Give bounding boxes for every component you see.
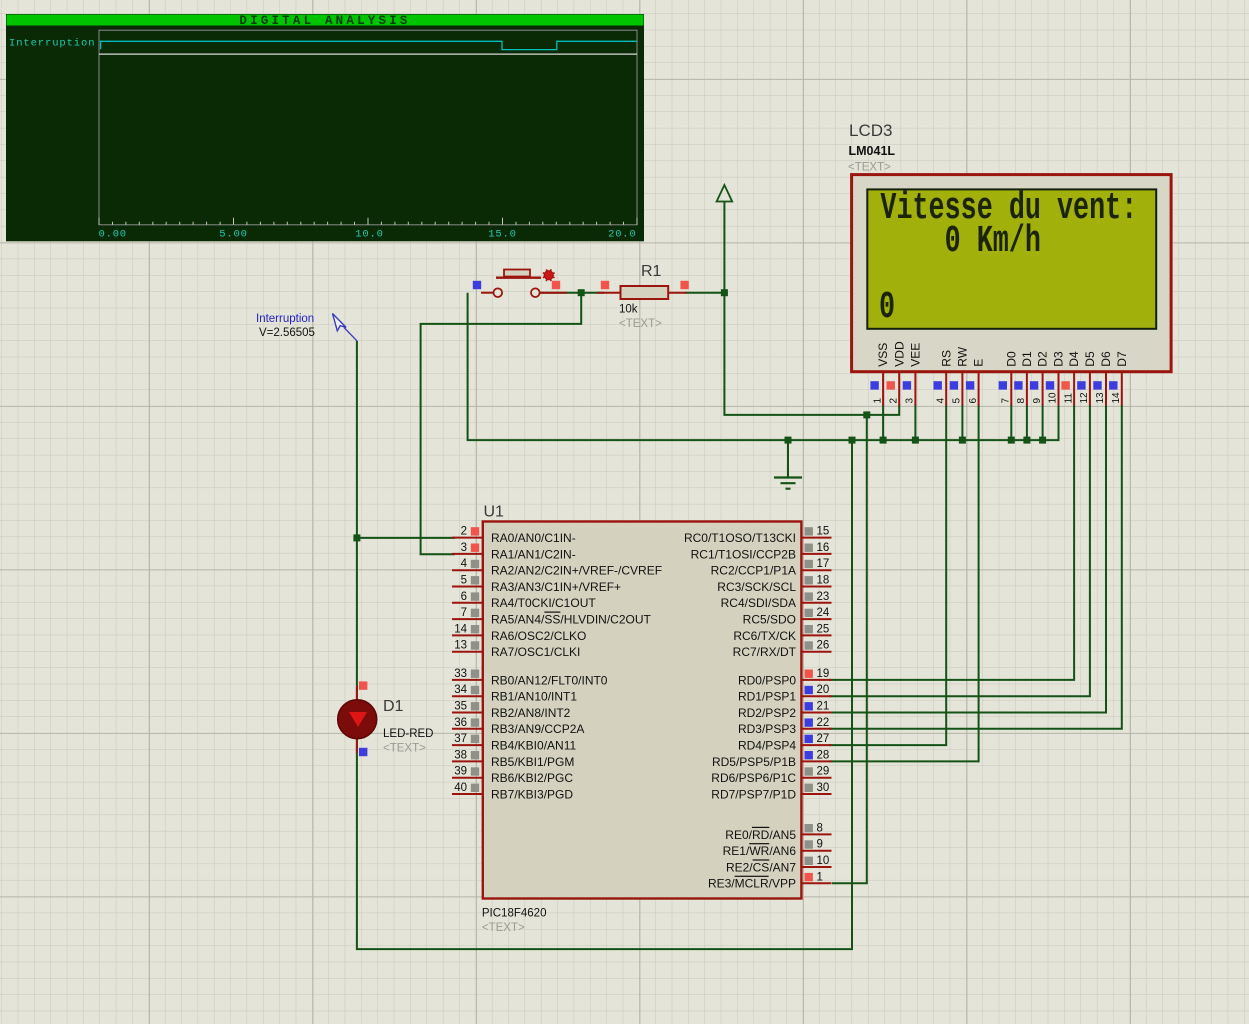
svg-text:3: 3 — [461, 542, 467, 554]
microcontroller U1 PIC18F4620 body — [483, 522, 802, 899]
svg-text:RE0/RD/AN5: RE0/RD/AN5 — [725, 828, 796, 842]
svg-text:RW: RW — [956, 346, 970, 366]
svg-text:VSS: VSS — [876, 343, 890, 367]
svg-text:10: 10 — [1048, 392, 1059, 404]
svg-text:RS: RS — [939, 350, 953, 367]
U1 pin 9 (RE1/WR/AN6) — [723, 839, 832, 858]
svg-text:19: 19 — [817, 668, 830, 680]
wire junction dots — [353, 289, 1046, 541]
svg-text:D4: D4 — [1067, 351, 1081, 367]
svg-text:Interruption: Interruption — [9, 38, 95, 50]
wire LCD RS to PIC RD4 — [829, 405, 946, 746]
svg-text:RD1/PSP1: RD1/PSP1 — [738, 690, 796, 704]
LCD3 pin 10 (D3) — [1046, 351, 1066, 405]
digital analysis window — [6, 14, 644, 242]
D1 terminal state squares — [359, 681, 367, 756]
svg-text:0: 0 — [879, 286, 895, 329]
svg-text:11: 11 — [1063, 393, 1074, 404]
LCD3 pin 12 (D5) — [1077, 351, 1097, 405]
svg-text:16: 16 — [817, 542, 830, 554]
svg-text:14: 14 — [1111, 392, 1122, 404]
svg-text:VEE: VEE — [909, 343, 923, 367]
wire LCD D7 to PIC RD3 — [829, 405, 1122, 729]
svg-text:RC5/SDO: RC5/SDO — [743, 613, 796, 627]
svg-text:LM041L: LM041L — [849, 144, 896, 158]
U1 pin 14 (RA6/OSC2/CLKO) — [452, 623, 586, 642]
svg-text:D0: D0 — [1004, 351, 1018, 367]
svg-text:24: 24 — [817, 607, 830, 619]
push button — [481, 270, 567, 298]
U1 pin 7 (RA5/AN4/SS/HLVDIN/C2OUT) — [452, 607, 652, 626]
svg-text:D3: D3 — [1052, 351, 1066, 367]
wire RA0 to probe net — [357, 537, 455, 539]
svg-text:15.0: 15.0 — [488, 229, 516, 241]
svg-text:<TEXT>: <TEXT> — [848, 162, 891, 174]
U1 pin 40 (RB7/KBI3/PGD) — [452, 782, 573, 801]
wire button left to ground bus — [468, 293, 1059, 440]
svg-text:RA5/AN4/SS/HLVDIN/C2OUT: RA5/AN4/SS/HLVDIN/C2OUT — [491, 613, 652, 627]
LCD3 pin 5 (RW) — [950, 346, 970, 405]
U1 pin 20 (RD1/PSP1) — [738, 684, 832, 703]
U1 pin 17 (RC2/CCP1/P1A) — [711, 558, 832, 577]
power symbol — [717, 185, 733, 202]
U1 pin 29 (RD6/PSP6/P1C) — [711, 766, 831, 785]
svg-text:Interruption: Interruption — [256, 313, 314, 325]
svg-text:10: 10 — [817, 855, 830, 867]
svg-text:R1: R1 — [641, 263, 662, 280]
wire LCD VSS to ground — [882, 405, 884, 441]
svg-text:RB1/AN10/INT1: RB1/AN10/INT1 — [491, 690, 577, 704]
svg-text:5: 5 — [461, 575, 467, 587]
svg-text:RB2/AN8/INT2: RB2/AN8/INT2 — [491, 706, 571, 720]
svg-text:RC6/TX/CK: RC6/TX/CK — [733, 629, 796, 643]
svg-text:PIC18F4620: PIC18F4620 — [482, 908, 547, 920]
LCD3 pin 6 (E) — [966, 359, 986, 406]
svg-text:LED-RED: LED-RED — [383, 728, 433, 740]
U1 pin 34 (RB1/AN10/INT1) — [452, 684, 577, 703]
svg-text:RD4/PSP4: RD4/PSP4 — [738, 739, 796, 753]
svg-text:RA2/AN2/C2IN+/VREF-/CVREF: RA2/AN2/C2IN+/VREF-/CVREF — [491, 564, 662, 578]
svg-text:RC3/SCK/SCL: RC3/SCK/SCL — [717, 580, 796, 594]
LCD3 pin 9 (D2) — [1030, 351, 1050, 405]
svg-text:6: 6 — [968, 398, 979, 404]
svg-text:RC4/SDI/SDA: RC4/SDI/SDA — [721, 596, 796, 610]
LCD3 pin 1 (VSS) — [870, 343, 890, 406]
svg-text:5: 5 — [952, 398, 963, 404]
svg-text:22: 22 — [817, 717, 830, 729]
wire LCD VEE to ground — [914, 405, 916, 441]
svg-text:D6: D6 — [1099, 351, 1113, 367]
svg-text:30: 30 — [817, 782, 830, 794]
svg-text:4: 4 — [461, 558, 468, 570]
svg-text:17: 17 — [817, 558, 830, 570]
channel separator — [99, 53, 637, 55]
svg-text:RB0/AN12/FLT0/INT0: RB0/AN12/FLT0/INT0 — [491, 673, 608, 687]
svg-text:<TEXT>: <TEXT> — [383, 743, 426, 755]
svg-text:V=2.56505: V=2.56505 — [259, 327, 315, 339]
U1 pin 3 (RA1/AN1/C2IN-) — [452, 542, 576, 561]
ground symbol — [774, 478, 802, 489]
wire LCD D5 to PIC RD1 — [829, 405, 1090, 697]
svg-text:38: 38 — [454, 749, 467, 761]
svg-text:7: 7 — [1001, 398, 1012, 404]
svg-text:RD3/PSP3: RD3/PSP3 — [738, 722, 796, 736]
svg-text:RE1/WR/AN6: RE1/WR/AN6 — [723, 844, 797, 858]
U1 pin 26 (RC7/RX/DT) — [733, 640, 832, 659]
wire LCD RW to ground — [961, 405, 963, 441]
U1 pin 23 (RC4/SDI/SDA) — [721, 591, 832, 610]
U1 pin 30 (RD7/PSP7/P1D) — [711, 782, 831, 801]
wire LCD D6 to PIC RD2 — [829, 405, 1106, 713]
svg-text:D1: D1 — [1020, 351, 1034, 367]
svg-text:D2: D2 — [1036, 351, 1050, 367]
LCD3 pin 11 (D4) — [1061, 351, 1081, 405]
svg-text:18: 18 — [817, 575, 830, 587]
svg-text:RC2/CCP1/P1A: RC2/CCP1/P1A — [711, 564, 796, 578]
trace Interruption — [101, 41, 637, 49]
svg-text:20.0: 20.0 — [608, 229, 636, 241]
svg-text:RD0/PSP0: RD0/PSP0 — [738, 673, 796, 687]
svg-text:40: 40 — [454, 782, 467, 794]
svg-text:10.0: 10.0 — [355, 229, 383, 241]
svg-text:10k: 10k — [619, 304, 638, 316]
time axis ticks — [99, 218, 637, 225]
wire LCD D2 to ground — [1042, 405, 1044, 441]
svg-text:<TEXT>: <TEXT> — [619, 318, 662, 330]
button actuate marker — [543, 269, 555, 281]
svg-text:20: 20 — [817, 684, 830, 696]
LCD3 pin 14 (D7) — [1109, 351, 1129, 405]
svg-text:<TEXT>: <TEXT> — [482, 922, 525, 934]
wire VDD to MCLR — [832, 415, 867, 883]
button terminal state squares — [473, 281, 560, 289]
svg-text:12: 12 — [1079, 392, 1090, 404]
U1 pin 33 (RB0/AN12/FLT0/INT0) — [452, 668, 608, 687]
svg-text:15: 15 — [817, 526, 830, 538]
svg-text:9: 9 — [817, 839, 823, 851]
svg-text:RA4/T0CKI/C1OUT: RA4/T0CKI/C1OUT — [491, 596, 596, 610]
svg-text:D1: D1 — [383, 698, 404, 715]
svg-text:33: 33 — [454, 668, 467, 680]
U1 pin 2 (RA0/AN0/C1IN-) — [452, 526, 576, 545]
svg-text:RB4/KBI0/AN11: RB4/KBI0/AN11 — [491, 739, 576, 753]
svg-text:37: 37 — [454, 733, 467, 745]
svg-text:1: 1 — [872, 398, 883, 404]
U1 pin 39 (RB6/KBI2/PGC) — [452, 766, 573, 785]
probe cursor arrow — [333, 314, 347, 331]
svg-text:RD6/PSP6/P1C: RD6/PSP6/P1C — [711, 771, 796, 785]
U1 pin 38 (RB5/KBI1/PGM) — [452, 749, 574, 768]
LCD LCD3 LM041L body — [852, 175, 1172, 372]
svg-text:RA6/OSC2/CLKO: RA6/OSC2/CLKO — [491, 629, 586, 643]
svg-text:RB3/AN9/CCP2A: RB3/AN9/CCP2A — [491, 722, 584, 736]
LCD screen — [867, 189, 1156, 328]
svg-text:14: 14 — [454, 623, 467, 635]
U1 pin 24 (RC5/SDO) — [743, 607, 832, 626]
LCD3 pin 4 (RS) — [934, 350, 954, 405]
svg-text:8: 8 — [1016, 398, 1027, 404]
U1 pin 35 (RB2/AN8/INT2) — [452, 701, 571, 720]
svg-text:RD2/PSP2: RD2/PSP2 — [738, 706, 796, 720]
svg-text:RA3/AN3/C1IN+/VREF+: RA3/AN3/C1IN+/VREF+ — [491, 580, 621, 594]
svg-text:8: 8 — [817, 822, 823, 834]
svg-text:21: 21 — [817, 701, 830, 713]
wire RA1 to button junction — [421, 293, 582, 555]
svg-text:4: 4 — [935, 398, 946, 404]
LCD3 pin 3 (VEE) — [903, 343, 923, 406]
wire power to LCD VDD — [724, 293, 899, 415]
wire probe to LED to ground return — [357, 341, 852, 949]
svg-text:RB7/KBI3/PGD: RB7/KBI3/PGD — [491, 787, 573, 801]
svg-text:RD7/PSP7/P1D: RD7/PSP7/P1D — [711, 787, 796, 801]
svg-text:E: E — [972, 359, 986, 367]
svg-text:2: 2 — [888, 398, 899, 404]
svg-text:13: 13 — [454, 640, 467, 652]
svg-text:29: 29 — [817, 766, 830, 778]
U1 pin 8 (RE0/RD/AN5) — [725, 822, 831, 841]
svg-text:RE3/MCLR/VPP: RE3/MCLR/VPP — [708, 877, 796, 891]
svg-text:34: 34 — [454, 684, 467, 696]
svg-text:28: 28 — [817, 749, 830, 761]
svg-text:RB6/KBI2/PGC: RB6/KBI2/PGC — [491, 771, 573, 785]
wire LCD D0 to ground — [1010, 405, 1012, 441]
U1 pin 18 (RC3/SCK/SCL) — [717, 575, 831, 594]
U1 pin 25 (RC6/TX/CK) — [733, 623, 831, 642]
ground symbol stem — [787, 440, 789, 477]
svg-text:1: 1 — [817, 871, 823, 883]
plot area frame — [99, 30, 637, 225]
U1 pin 5 (RA3/AN3/C1IN+/VREF+) — [452, 575, 621, 594]
wire button right to R1 — [535, 292, 604, 294]
wire R1 right to power — [685, 202, 724, 293]
svg-text:13: 13 — [1095, 392, 1106, 404]
svg-text:U1: U1 — [484, 504, 505, 521]
svg-text:D5: D5 — [1083, 351, 1097, 367]
svg-text:LCD3: LCD3 — [849, 121, 892, 140]
svg-text:RB5/KBI1/PGM: RB5/KBI1/PGM — [491, 755, 574, 769]
svg-text:5.00: 5.00 — [219, 229, 247, 241]
svg-text:2: 2 — [461, 526, 467, 538]
svg-text:0 Km/h: 0 Km/h — [945, 220, 1041, 263]
svg-text:RC1/T1OSI/CCP2B: RC1/T1OSI/CCP2B — [691, 547, 796, 561]
U1 pin 6 (RA4/T0CKI/C1OUT) — [452, 591, 596, 610]
U1 pin 37 (RB4/KBI0/AN11) — [452, 733, 576, 752]
U1 pin 15 (RC0/T1OSO/T13CKI) — [684, 526, 832, 545]
svg-text:RC0/T1OSO/T13CKI: RC0/T1OSO/T13CKI — [684, 531, 796, 545]
svg-text:DIGITAL ANALYSIS: DIGITAL ANALYSIS — [239, 14, 410, 28]
R1 terminal state squares — [601, 281, 689, 289]
svg-text:9: 9 — [1032, 398, 1043, 404]
svg-text:VDD: VDD — [892, 341, 906, 367]
svg-text:0.00: 0.00 — [99, 229, 127, 241]
wire LCD E to PIC RD5 — [829, 405, 979, 762]
U1 pin 36 (RB3/AN9/CCP2A) — [452, 717, 584, 736]
svg-text:RD5/PSP5/P1B: RD5/PSP5/P1B — [712, 755, 796, 769]
svg-text:39: 39 — [454, 766, 467, 778]
svg-text:35: 35 — [454, 701, 467, 713]
svg-text:6: 6 — [461, 591, 467, 603]
svg-text:23: 23 — [817, 591, 830, 603]
svg-text:RE2/CS/AN7: RE2/CS/AN7 — [726, 860, 796, 874]
svg-text:27: 27 — [817, 733, 830, 745]
wire LCD D4 to PIC RD0 — [829, 405, 1074, 680]
LCD3 pin 8 (D1) — [1014, 351, 1034, 405]
svg-text:7: 7 — [461, 607, 467, 619]
svg-text:26: 26 — [817, 640, 830, 652]
svg-text:3: 3 — [905, 398, 916, 404]
U1 pin 27 (RD4/PSP4) — [738, 733, 832, 752]
LCD3 pin 2 (VDD) — [887, 341, 907, 405]
svg-text:RA1/AN1/C2IN-: RA1/AN1/C2IN- — [491, 547, 576, 561]
U1 pin 1 (RE3/MCLR/VPP) — [708, 871, 832, 890]
U1 pin 4 (RA2/AN2/C2IN+/VREF-/CVREF) — [452, 558, 662, 577]
U1 pin 16 (RC1/T1OSI/CCP2B) — [691, 542, 832, 561]
U1 pin 21 (RD2/PSP2) — [738, 701, 832, 720]
U1 pin 13 (RA7/OSC1/CLKI) — [452, 640, 580, 659]
U1 pin 10 (RE2/CS/AN7) — [726, 855, 832, 874]
svg-text:D7: D7 — [1115, 351, 1129, 367]
U1 pin 28 (RD5/PSP5/P1B) — [712, 749, 832, 768]
svg-text:RA7/OSC1/CLKI: RA7/OSC1/CLKI — [491, 645, 580, 659]
resistor R1 — [597, 286, 687, 299]
LCD3 pin 7 (D0) — [999, 351, 1019, 405]
U1 pin 22 (RD3/PSP3) — [738, 717, 832, 736]
svg-text:36: 36 — [454, 717, 467, 729]
svg-text:RC7/RX/DT: RC7/RX/DT — [733, 645, 797, 659]
svg-text:25: 25 — [817, 623, 830, 635]
svg-text:RA0/AN0/C1IN-: RA0/AN0/C1IN- — [491, 531, 576, 545]
wire LCD D1 to ground — [1026, 405, 1028, 441]
LCD3 pin 13 (D6) — [1093, 351, 1113, 405]
LED D1 — [338, 686, 377, 753]
U1 pin 19 (RD0/PSP0) — [738, 668, 832, 687]
